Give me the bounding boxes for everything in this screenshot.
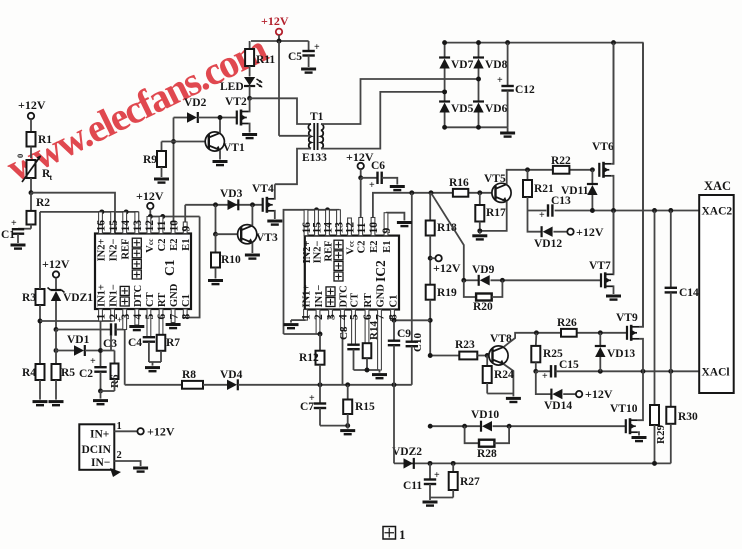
svg-text:+: + xyxy=(314,42,320,53)
svg-text:9: 9 xyxy=(381,228,393,234)
wire xyxy=(101,390,115,392)
node junction xyxy=(171,139,176,144)
wire pin10 column xyxy=(173,118,175,234)
svg-text:XACl: XACl xyxy=(702,367,730,379)
svg-text:R22: R22 xyxy=(551,155,571,167)
pin stub IC2 bottom xyxy=(316,310,320,335)
resistor R28 xyxy=(465,426,479,443)
svg-text:4: 4 xyxy=(132,314,144,320)
node junction xyxy=(409,190,414,195)
svg-text:VD9: VD9 xyxy=(472,264,495,276)
svg-text:E2: E2 xyxy=(369,241,380,253)
pin stub IC1 top xyxy=(147,217,151,234)
svg-text:+12V: +12V xyxy=(147,424,175,438)
node junction xyxy=(213,202,218,207)
ground xyxy=(154,178,169,181)
svg-text:11: 11 xyxy=(156,220,168,231)
svg-text:R3: R3 xyxy=(22,292,36,304)
node junction xyxy=(29,190,34,195)
svg-text:R21: R21 xyxy=(534,183,554,195)
svg-text:R16: R16 xyxy=(449,177,469,189)
resistor R27 xyxy=(452,463,454,472)
ground xyxy=(213,160,228,163)
ground pin7 IC2 xyxy=(379,370,381,373)
node junction xyxy=(598,369,603,374)
node junction xyxy=(277,39,282,44)
wire VT10 source xyxy=(638,432,639,435)
wire XAC2 line xyxy=(528,210,547,212)
pin stub IC1 top xyxy=(135,212,139,234)
pin label xyxy=(120,297,129,306)
node junction xyxy=(99,209,104,214)
svg-text:R27: R27 xyxy=(460,476,480,488)
wire VT6 source xyxy=(611,176,613,274)
wire VT9 drain column xyxy=(642,43,644,328)
svg-text:VD3: VD3 xyxy=(220,188,243,200)
svg-text:RT: RT xyxy=(363,293,374,307)
diode VD13 xyxy=(599,333,601,346)
node junction xyxy=(54,327,59,332)
svg-text:12: 12 xyxy=(345,222,357,234)
ground xyxy=(11,244,26,247)
resistor R15 xyxy=(347,385,349,400)
wire diagonal xyxy=(431,193,464,280)
wire xyxy=(55,330,57,365)
pin stub IC2 top xyxy=(337,210,341,236)
caption xyxy=(383,527,396,540)
node junction xyxy=(533,369,538,374)
svg-text:Vcc: Vcc xyxy=(145,238,156,253)
svg-text:1: 1 xyxy=(117,421,122,432)
node junction xyxy=(318,382,323,387)
ground pin7 xyxy=(166,323,181,326)
ground xyxy=(632,436,647,439)
svg-text:C1: C1 xyxy=(181,294,192,307)
wire XAC1 line xyxy=(556,370,700,372)
wire pin8 IC2 xyxy=(392,318,397,323)
svg-text:5: 5 xyxy=(349,314,361,320)
pin stub IC1 bottom xyxy=(123,309,127,330)
svg-text:C2: C2 xyxy=(357,241,368,254)
svg-text:+12V: +12V xyxy=(18,98,46,112)
ground xyxy=(245,254,260,257)
resistor R24 xyxy=(486,356,488,367)
svg-text:DTC: DTC xyxy=(339,285,350,307)
svg-text:C15: C15 xyxy=(559,359,579,371)
node junction xyxy=(476,77,481,82)
wire VT7 drain xyxy=(612,211,615,275)
svg-text:VD2: VD2 xyxy=(184,97,207,109)
svg-text:C14: C14 xyxy=(679,287,699,299)
wire xyxy=(30,178,32,193)
svg-text:C9: C9 xyxy=(397,328,411,340)
pin stub IC1 top xyxy=(111,212,115,234)
svg-text:VD10: VD10 xyxy=(471,409,499,421)
svg-text:VT3: VT3 xyxy=(256,232,278,244)
wire xyxy=(250,98,311,124)
svg-text:+: + xyxy=(434,470,440,481)
svg-text:C7: C7 xyxy=(300,401,314,413)
svg-text:C1: C1 xyxy=(1,229,15,241)
svg-text:R15: R15 xyxy=(355,401,375,413)
svg-text:+12V: +12V xyxy=(42,257,70,271)
wire xyxy=(30,119,32,132)
svg-text:VD14: VD14 xyxy=(544,400,572,412)
resistor R30 xyxy=(670,371,672,407)
pin stub IC2 top xyxy=(359,218,363,236)
pin stub IC2 top xyxy=(304,210,308,236)
wire xyxy=(249,86,251,98)
wire pin 1 xyxy=(114,430,137,432)
svg-text:VD13: VD13 xyxy=(607,348,635,360)
wire VT4 drain xyxy=(274,184,276,199)
connector DCIN xyxy=(79,424,114,470)
node junction xyxy=(428,318,433,323)
node junction xyxy=(590,208,595,213)
wire xyxy=(31,193,115,234)
wire VT10 drain xyxy=(638,371,643,420)
capacitor C14 xyxy=(670,211,672,288)
svg-text:IN−: IN− xyxy=(91,457,110,469)
svg-text:C2: C2 xyxy=(79,368,93,380)
svg-text:8: 8 xyxy=(180,314,192,320)
resistor R18 xyxy=(429,193,431,221)
wire xyxy=(354,369,380,371)
svg-text:R28: R28 xyxy=(477,448,497,460)
svg-text:C2: C2 xyxy=(157,239,168,252)
pin stub IC2 bottom xyxy=(391,310,395,321)
node junction +12V tap xyxy=(428,256,433,261)
ground xyxy=(347,426,349,429)
svg-text:R24: R24 xyxy=(494,369,514,381)
pin stub IC1 bottom xyxy=(147,309,151,337)
node junction xyxy=(98,389,103,394)
svg-text:R20: R20 xyxy=(473,301,493,313)
wire E1 line xyxy=(185,204,263,206)
resistor R5 xyxy=(52,364,61,380)
svg-text:C6: C6 xyxy=(371,160,385,172)
pin stub IC1 bottom xyxy=(159,309,163,335)
ground xyxy=(267,220,282,223)
svg-text:R8: R8 xyxy=(182,369,196,381)
svg-text:IC2: IC2 xyxy=(373,260,388,282)
pin stub IC2 bottom xyxy=(352,310,356,345)
resistor R12 xyxy=(319,334,321,351)
wire Vcc column IC2 xyxy=(360,178,362,236)
svg-text:16: 16 xyxy=(96,220,108,232)
wire xyxy=(137,212,139,234)
pin stub IC2 bottom xyxy=(378,310,382,371)
svg-text:R2: R2 xyxy=(36,197,50,209)
pin stub IC1 bottom xyxy=(183,309,187,318)
resistor R6 xyxy=(102,350,115,352)
svg-text:IN2−: IN2− xyxy=(313,240,324,263)
node junction xyxy=(477,228,482,233)
node junction xyxy=(358,175,363,180)
resistor R19 xyxy=(426,285,435,300)
wire feedback xyxy=(116,329,125,331)
wire bottom rail xyxy=(394,462,671,464)
wire VT9 source xyxy=(639,339,643,372)
wire xyxy=(40,320,113,322)
svg-text:+12V: +12V xyxy=(261,14,289,28)
resistor R26 xyxy=(561,329,577,337)
svg-text:CT: CT xyxy=(145,292,156,307)
svg-text:IN1+: IN1+ xyxy=(302,285,313,308)
svg-text:R4: R4 xyxy=(22,367,36,379)
resistor R3 xyxy=(36,289,45,305)
svg-text:VD4: VD4 xyxy=(220,369,243,381)
svg-text:REF: REF xyxy=(324,241,335,262)
svg-text:R12: R12 xyxy=(299,352,319,364)
wire IC2 top tie xyxy=(284,210,339,334)
capacitor C10 xyxy=(406,341,418,343)
svg-text:E133: E133 xyxy=(302,152,327,164)
pin stub IC2 bottom xyxy=(365,310,369,344)
svg-text:XAC2: XAC2 xyxy=(702,206,733,218)
capacitor C1 xyxy=(18,228,31,230)
svg-text:14: 14 xyxy=(120,220,132,232)
svg-text:+: + xyxy=(497,75,503,86)
svg-text:R19: R19 xyxy=(437,287,457,299)
wire around-box to pin8 xyxy=(185,217,199,318)
svg-text:R14: R14 xyxy=(368,321,380,340)
diode VD12 xyxy=(528,211,542,232)
svg-text:E1: E1 xyxy=(181,239,192,251)
resistor R11 xyxy=(249,41,251,49)
wire xyxy=(487,393,513,395)
wire xyxy=(251,40,309,42)
svg-text:C1: C1 xyxy=(389,295,400,308)
svg-text:R7: R7 xyxy=(166,337,180,349)
ground xyxy=(49,400,64,403)
wire VT6 drain xyxy=(611,43,613,164)
svg-text:11: 11 xyxy=(356,222,368,233)
svg-text:6: 6 xyxy=(156,314,168,320)
wire VT3 collector xyxy=(251,205,253,226)
wire secondary bottom xyxy=(321,92,445,149)
wire xyxy=(394,319,430,321)
pin stub IC1 top xyxy=(171,222,175,234)
svg-text:+: + xyxy=(369,180,375,191)
svg-text:5: 5 xyxy=(144,314,156,320)
svg-text:12: 12 xyxy=(144,220,156,232)
node junction xyxy=(314,207,319,212)
wire C2 column xyxy=(100,321,102,367)
svg-text:6: 6 xyxy=(362,314,374,320)
svg-text:VT9: VT9 xyxy=(616,312,638,324)
pin label xyxy=(132,270,141,279)
wire control bus xyxy=(373,193,495,236)
svg-text:C5: C5 xyxy=(288,51,302,63)
diode VD7 xyxy=(444,43,446,58)
svg-text:R9: R9 xyxy=(143,154,157,166)
svg-text:GND: GND xyxy=(169,283,180,307)
node junction xyxy=(461,278,466,283)
wire long feedback line xyxy=(238,384,412,386)
svg-text:+: + xyxy=(90,356,96,367)
wire xyxy=(110,336,112,351)
ground xyxy=(208,279,223,282)
resistor R2 xyxy=(30,193,32,211)
wire primary center tap xyxy=(279,135,311,137)
svg-text:C10: C10 xyxy=(412,333,424,352)
svg-text:C12: C12 xyxy=(515,84,535,96)
svg-text:R11: R11 xyxy=(256,54,275,66)
capacitor C4 xyxy=(143,336,155,338)
wire xyxy=(382,178,398,185)
resistor R4 xyxy=(36,364,45,380)
svg-text:XAC: XAC xyxy=(704,179,731,193)
node junction xyxy=(442,89,447,94)
svg-text:REF: REF xyxy=(121,239,132,260)
resistor R14 xyxy=(363,343,372,358)
svg-text:3: 3 xyxy=(120,314,132,320)
pin stub IC2 top xyxy=(384,213,388,236)
resistor R25 xyxy=(535,333,538,346)
svg-text:T1: T1 xyxy=(310,111,324,123)
svg-text:E1: E1 xyxy=(382,241,393,253)
pin stub IC1 bottom xyxy=(135,309,139,325)
pin stub IC2 bottom xyxy=(341,310,345,331)
diode VD8 xyxy=(478,43,480,58)
svg-text:IN2−: IN2− xyxy=(109,238,120,261)
svg-text:IN1−: IN1− xyxy=(109,284,120,307)
wire primary bottom xyxy=(275,149,311,185)
pin label xyxy=(334,272,343,281)
wire VT3 base xyxy=(216,233,242,235)
svg-text:2: 2 xyxy=(117,450,122,461)
ground xyxy=(284,323,299,326)
wire VD10 line xyxy=(430,425,481,427)
svg-text:R23: R23 xyxy=(455,339,475,351)
ground xyxy=(479,231,481,234)
svg-text:+: + xyxy=(11,218,17,229)
capacitor C11 xyxy=(429,463,431,479)
IC U1 (IC1) xyxy=(95,234,191,310)
svg-text:+12V: +12V xyxy=(585,387,613,401)
capacitor C3 xyxy=(56,329,111,331)
diode VD14 xyxy=(536,371,551,394)
node junction xyxy=(442,40,447,45)
resistor R7 xyxy=(157,335,166,351)
svg-text:t: t xyxy=(50,173,53,182)
resistor R21 xyxy=(527,170,529,180)
svg-text:1: 1 xyxy=(96,314,108,320)
wire DTC column xyxy=(342,330,344,385)
wire xyxy=(411,346,413,385)
wire xyxy=(430,497,453,499)
transistor VT1 xyxy=(205,132,224,151)
node junction xyxy=(534,330,539,335)
wire xyxy=(360,169,362,178)
diode VD6 xyxy=(473,103,483,113)
svg-text:VT10: VT10 xyxy=(610,403,638,415)
wire pin 2 xyxy=(114,461,140,466)
node junction xyxy=(428,461,433,466)
svg-text:R26: R26 xyxy=(557,317,577,329)
wire secondary top xyxy=(321,79,479,124)
wire xyxy=(55,278,57,290)
ground xyxy=(152,362,154,366)
svg-text:R30: R30 xyxy=(678,411,698,423)
svg-text:+: + xyxy=(539,210,545,221)
wire VT2 source xyxy=(248,124,251,133)
IC U2 (IC2) xyxy=(305,236,399,310)
diode VD5 xyxy=(439,103,449,113)
svg-text:R17: R17 xyxy=(486,207,506,219)
svg-text:13: 13 xyxy=(132,220,144,232)
pin stub IC2 top xyxy=(348,218,352,236)
pin stub IC1 top xyxy=(123,212,127,234)
pin stub IC2 top xyxy=(326,210,330,236)
wire VT6 drain column xyxy=(613,43,615,165)
ground xyxy=(512,394,514,397)
resistor R22 xyxy=(553,166,570,174)
resistor R20 xyxy=(464,280,476,297)
ground xyxy=(301,68,316,71)
svg-text:+12V: +12V xyxy=(346,150,374,164)
svg-text:IN+: IN+ xyxy=(90,429,109,441)
decorative watermark xyxy=(0,26,274,191)
transistor VT5 xyxy=(492,183,511,202)
ground pin4 xyxy=(129,325,144,328)
wire DC top rail xyxy=(445,42,644,44)
ground xyxy=(242,133,257,136)
svg-text:DTC: DTC xyxy=(133,285,144,307)
wire VT8 emitter xyxy=(504,364,514,393)
resistor R17 xyxy=(479,193,481,205)
svg-text:R5: R5 xyxy=(61,367,75,379)
svg-text:VT4: VT4 xyxy=(252,183,274,195)
wire VT1 emitter xyxy=(219,150,221,159)
wire xyxy=(215,205,217,234)
wire VT4 source xyxy=(274,211,276,219)
capacitor C8 xyxy=(347,344,359,346)
pin stub IC1 top xyxy=(99,212,103,234)
svg-text:0: 0 xyxy=(15,154,25,158)
svg-text:C8: C8 xyxy=(338,326,350,340)
svg-text:+12V: +12V xyxy=(576,225,604,239)
svg-text:2: 2 xyxy=(313,314,325,320)
capacitor C7 xyxy=(319,385,321,403)
svg-text:VT1: VT1 xyxy=(223,142,245,154)
wire VT7 source xyxy=(612,286,615,294)
ground xyxy=(133,467,148,470)
pin stub IC1 bottom xyxy=(111,309,115,321)
ground xyxy=(507,127,509,131)
ground xyxy=(397,221,412,224)
wire VT3 emitter xyxy=(251,243,253,253)
svg-text:IN2+: IN2+ xyxy=(302,240,313,263)
svg-text:+12V: +12V xyxy=(433,261,461,275)
svg-text:CT: CT xyxy=(350,293,361,308)
wire xyxy=(149,361,161,363)
svg-text:VT7: VT7 xyxy=(589,260,611,272)
svg-text:LED: LED xyxy=(220,81,244,93)
svg-text:+: + xyxy=(542,371,548,382)
wire bridge bottom rail xyxy=(445,126,508,128)
ground xyxy=(606,295,621,298)
ground xyxy=(429,498,431,501)
ground xyxy=(33,400,48,403)
wire C10 column xyxy=(411,193,413,341)
wire xyxy=(278,41,280,136)
svg-text:10: 10 xyxy=(168,220,180,232)
svg-text:E2: E2 xyxy=(169,239,180,251)
wire xyxy=(278,35,280,41)
pin stub IC1 bottom xyxy=(99,309,103,321)
